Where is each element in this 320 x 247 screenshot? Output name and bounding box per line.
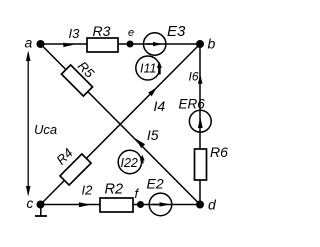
resistor R2 xyxy=(100,198,133,212)
current arrow I6 xyxy=(198,74,203,84)
resistor R6 xyxy=(195,149,207,180)
node d xyxy=(196,201,204,209)
node e xyxy=(127,41,134,48)
svg-text:b: b xyxy=(208,36,216,52)
wire bottom c-d xyxy=(41,204,201,206)
node a xyxy=(37,40,45,48)
svg-text:I6: I6 xyxy=(189,70,199,84)
svg-text:a: a xyxy=(25,34,33,50)
svg-text:Uca: Uca xyxy=(34,122,57,137)
EMF source E3 circle xyxy=(144,33,166,55)
wire right b-d xyxy=(199,44,201,205)
svg-text:ER6: ER6 xyxy=(179,97,206,112)
svg-text:I4: I4 xyxy=(154,98,166,114)
node f xyxy=(137,201,144,208)
svg-text:I5: I5 xyxy=(147,127,159,143)
EMF ER6 inner arrow xyxy=(198,117,203,128)
svg-text:d: d xyxy=(208,197,217,213)
svg-text:I2: I2 xyxy=(82,182,94,197)
current arrow I3 xyxy=(63,43,73,48)
EMF source ER6 circle xyxy=(189,110,211,132)
EMF E3 inner arrow xyxy=(147,43,156,45)
svg-text:R2: R2 xyxy=(105,182,124,198)
current arrow I5 xyxy=(136,139,146,149)
node c xyxy=(37,201,45,209)
ground xyxy=(40,206,42,216)
EMF source E2 circle xyxy=(149,193,172,216)
svg-text:E3: E3 xyxy=(167,23,186,40)
loop current I11 circle xyxy=(136,56,160,80)
current arrow I2 xyxy=(79,202,91,207)
svg-text:I11: I11 xyxy=(140,61,156,75)
resistor R3 xyxy=(87,38,118,52)
svg-text:R6: R6 xyxy=(210,144,228,160)
EMF E2 inner arrow xyxy=(153,204,162,206)
loop current I22 circle xyxy=(118,150,141,173)
node b xyxy=(196,40,204,48)
svg-text:I3: I3 xyxy=(69,26,81,41)
svg-text:E2: E2 xyxy=(147,176,164,192)
svg-text:I22: I22 xyxy=(121,156,138,170)
wire top a-b xyxy=(41,43,201,45)
svg-text:e: e xyxy=(128,27,134,39)
wire diagonal a-d xyxy=(41,44,201,205)
resistor R4 xyxy=(60,154,91,185)
resistor R5 xyxy=(61,65,92,96)
svg-text:R3: R3 xyxy=(93,23,111,39)
current arrow I4 xyxy=(148,87,157,96)
svg-text:c: c xyxy=(27,196,34,211)
wire diagonal c-b xyxy=(41,44,201,205)
voltage arrow Uca xyxy=(27,53,29,194)
